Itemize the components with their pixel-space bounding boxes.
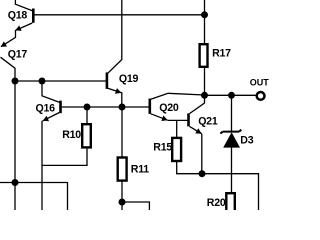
svg-text:R11: R11 [131, 163, 149, 175]
svg-text:OUT: OUT [250, 78, 270, 88]
svg-text:Q19: Q19 [119, 73, 139, 85]
svg-text:Q21: Q21 [198, 116, 218, 128]
svg-text:R17: R17 [212, 48, 231, 60]
svg-text:R20: R20 [207, 197, 226, 209]
svg-text:Q17: Q17 [8, 48, 28, 60]
svg-text:R10: R10 [62, 129, 81, 141]
svg-text:Q16: Q16 [36, 103, 56, 115]
svg-text:R15: R15 [153, 142, 172, 154]
svg-text:Q20: Q20 [159, 102, 179, 114]
svg-text:Q18: Q18 [8, 9, 28, 21]
svg-text:D3: D3 [240, 135, 253, 147]
